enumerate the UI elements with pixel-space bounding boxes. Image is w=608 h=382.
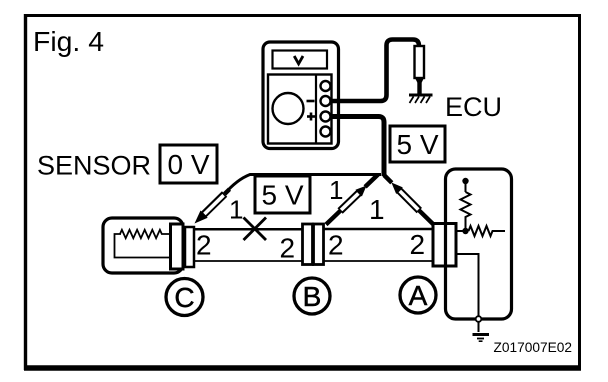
- sensor body: [103, 218, 183, 273]
- probe P-B on left diagonal (junction to connector B): [326, 175, 378, 225]
- terminal circle C: [166, 279, 203, 316]
- node dot inside ECU: [462, 228, 468, 234]
- resistor: ECU pull-up (vertical zigzag): [461, 192, 471, 219]
- probe P-A on right diagonal (junction to connector A): [384, 175, 434, 225]
- wire: harness B-A bottom (ground line): [323, 260, 434, 262]
- svg-text:Fig. 4: Fig. 4: [33, 26, 104, 57]
- svg-text:2: 2: [280, 233, 296, 264]
- terminal circle on ECU edge: [476, 316, 482, 322]
- value box 0 V: [160, 145, 217, 183]
- svg-text:1: 1: [229, 195, 243, 225]
- ECU block outline: [446, 169, 512, 319]
- wire: to ground symbol: [478, 322, 480, 332]
- terminal circle B: [294, 278, 330, 314]
- connector C housing (harness side): [185, 227, 194, 267]
- svg-text:SENSOR: SENSOR: [37, 151, 151, 181]
- svg-text:0 V: 0 V: [167, 149, 209, 180]
- V symbol in display: [294, 56, 303, 64]
- wire: resistor to node: [465, 219, 467, 229]
- selector dial: [273, 93, 304, 124]
- svg-text:2: 2: [328, 230, 344, 261]
- minus terminal label: [307, 100, 315, 103]
- wire: supply dot to pull-up resistor: [465, 183, 467, 192]
- svg-text:5 V: 5 V: [261, 180, 303, 211]
- body ground symbol (hatched): [409, 95, 433, 103]
- svg-text:2: 2: [196, 230, 212, 261]
- svg-text:2: 2: [410, 229, 426, 260]
- wire: harness B-A top (signal line): [323, 228, 434, 231]
- terminal circle A: [400, 277, 436, 313]
- svg-text:1: 1: [329, 175, 343, 205]
- voltmeter face panel: [268, 75, 332, 144]
- wire: voltmeter minus lead to body-ground probe: [331, 40, 419, 102]
- resistor: ECU series (horizontal zigzag): [469, 226, 506, 236]
- svg-text:Z017007E02: Z017007E02: [494, 340, 573, 355]
- svg-text:C: C: [174, 282, 194, 313]
- value box 5 V (middle): [255, 176, 310, 213]
- voltmeter body: [263, 42, 339, 149]
- svg-text:B: B: [303, 281, 322, 312]
- connector A housing: [433, 224, 456, 267]
- svg-text:ECU: ECU: [445, 92, 502, 122]
- ECU internal supply node (dot): [462, 178, 468, 184]
- wire: harness C-B top (signal line): [193, 228, 303, 231]
- connector B housing (right half): [314, 224, 324, 265]
- probe P-C on connector C diagonal: [195, 189, 230, 223]
- panel divider: [315, 75, 317, 144]
- ground symbol below ECU: [473, 335, 490, 342]
- wire: probe lead from connector C to junction (thin): [225, 175, 382, 195]
- ground probe (minus lead) body: [415, 46, 425, 78]
- terminal buttons: [321, 81, 331, 137]
- svg-text:1: 1: [369, 194, 385, 225]
- wire: harness C-B bottom (ground line): [193, 260, 303, 262]
- value box 5 V (at ECU): [390, 126, 445, 162]
- wire: connector A to ECU ground: [456, 254, 479, 316]
- ground probe tip: [415, 78, 424, 83]
- plus terminal label: [307, 113, 315, 121]
- resistor (thermistor) inside sensor: [115, 230, 171, 258]
- svg-text:5 V: 5 V: [396, 129, 438, 160]
- voltmeter display window: [273, 51, 328, 69]
- open-circuit X mark on wire C-B: [244, 218, 267, 241]
- wire: voltmeter plus lead down to junction (thick): [331, 117, 384, 177]
- svg-text:A: A: [409, 280, 428, 311]
- connector C housing (sensor side): [171, 224, 184, 269]
- wire: connector A to node: [456, 230, 466, 232]
- connector B housing (left half): [303, 224, 313, 265]
